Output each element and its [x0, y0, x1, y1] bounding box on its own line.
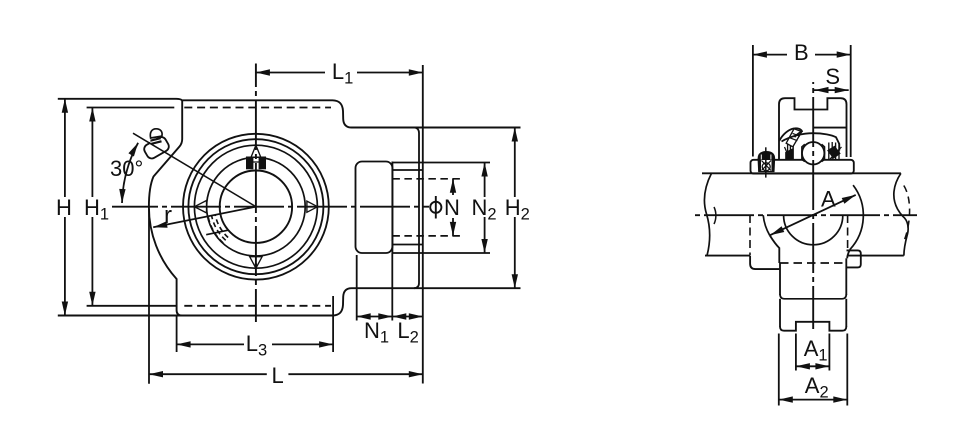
- svg-text:A: A: [821, 187, 836, 212]
- svg-text:H: H: [56, 195, 72, 220]
- svg-text:r: r: [164, 202, 172, 229]
- svg-text:L: L: [271, 363, 283, 388]
- svg-text:N: N: [444, 195, 460, 220]
- svg-text:S: S: [825, 64, 840, 89]
- svg-text:30°: 30°: [110, 156, 143, 181]
- svg-text:B: B: [794, 40, 809, 65]
